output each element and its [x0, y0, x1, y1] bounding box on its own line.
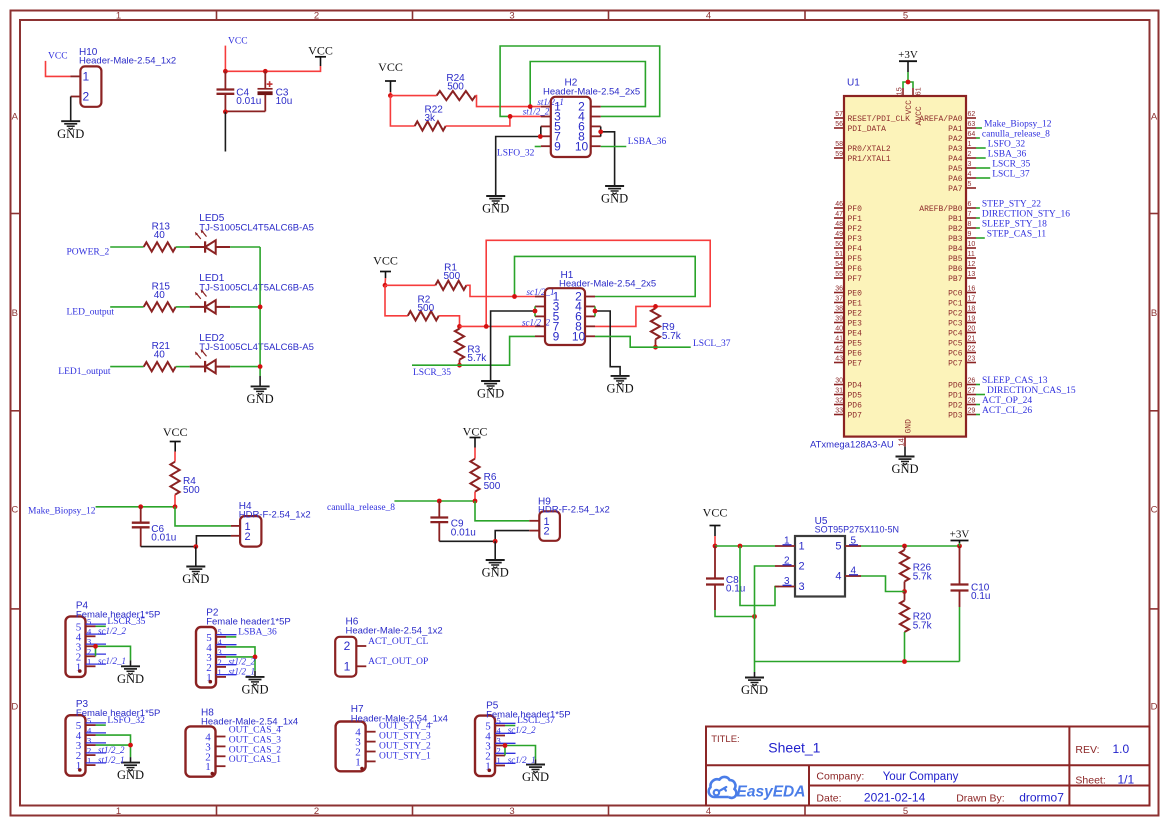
svg-text:1: 1	[116, 10, 121, 21]
pin1 marker	[488, 769, 492, 773]
svg-text:PD2: PD2	[948, 401, 963, 410]
svg-text:Company:: Company:	[816, 771, 864, 783]
svg-text:OUT_STY_1: OUT_STY_1	[379, 751, 431, 761]
wire LED gnd rail	[259, 247, 261, 376]
svg-text:43: 43	[835, 356, 843, 363]
wire net STEP_STY_22	[976, 207, 980, 209]
svg-text:OUT_STY_4: OUT_STY_4	[379, 722, 431, 732]
wire net DIRECTION_STY_16	[976, 217, 980, 219]
power flag VCC (R6)	[463, 425, 488, 448]
pin 56 PDI_DATA	[834, 127, 844, 129]
svg-text:41: 41	[835, 336, 843, 343]
svg-text:PD3: PD3	[948, 411, 963, 420]
ground (P5)	[522, 765, 549, 785]
svg-text:Your Company: Your Company	[883, 771, 959, 783]
svg-text:Sheet_1: Sheet_1	[768, 740, 820, 756]
wire R21 to LED2	[176, 366, 190, 368]
regulator U5	[775, 516, 899, 597]
resistor R6	[470, 459, 500, 492]
svg-text:10: 10	[968, 241, 976, 248]
svg-text:40: 40	[154, 350, 166, 361]
ground (P4)	[117, 666, 144, 686]
svg-text:Header-Male-2.54_2x5: Header-Male-2.54_2x5	[543, 87, 640, 98]
svg-text:GND: GND	[182, 572, 209, 586]
svg-text:st1/2_2: st1/2_2	[229, 657, 256, 667]
wire R9 bottom lead	[655, 339, 657, 347]
svg-text:PE7: PE7	[848, 359, 863, 368]
pin 15 VCC (top)	[902, 88, 904, 96]
junction	[457, 363, 462, 368]
junction	[598, 129, 603, 134]
svg-text:st1/2_2: st1/2_2	[523, 107, 550, 117]
svg-text:13: 13	[968, 271, 976, 278]
wire net DIRECTION_CAS_15	[976, 394, 985, 396]
svg-text:2: 2	[968, 151, 972, 158]
junction	[258, 305, 263, 310]
svg-text:40: 40	[154, 230, 166, 241]
pin 3	[366, 741, 376, 743]
svg-text:PC7: PC7	[948, 359, 963, 368]
pin 9 PB3	[966, 237, 976, 239]
wire gnd node down	[494, 541, 496, 560]
wire U5 pin2 to gnd net	[755, 566, 776, 617]
svg-text:ACT_OP_24: ACT_OP_24	[982, 396, 1032, 406]
svg-text:TJ-S1005CL4T5ALC6B-A5: TJ-S1005CL4T5ALC6B-A5	[199, 342, 314, 353]
svg-text:3: 3	[968, 161, 972, 168]
wire LED1_output to R21	[110, 366, 144, 368]
pin 3 PA5	[966, 167, 976, 169]
svg-text:EasyEDA: EasyEDA	[737, 784, 806, 801]
ground (H1 right)	[607, 376, 634, 396]
column labels 1-5 bottom	[116, 806, 908, 817]
svg-text:5.7k: 5.7k	[467, 353, 487, 364]
pin 42 PE6	[834, 352, 844, 354]
svg-text:Header-Male-2.54_1x2: Header-Male-2.54_1x2	[79, 56, 176, 67]
svg-text:3: 3	[509, 10, 514, 21]
wire net LSBA_36 (H2 pin10)	[601, 146, 627, 148]
connector P3	[66, 699, 161, 776]
svg-text:3: 3	[784, 576, 790, 587]
junction	[473, 499, 478, 504]
pin 1	[495, 765, 505, 767]
svg-text:4: 4	[706, 806, 711, 817]
wire +3V to U1 VCC/AVCC pins	[907, 72, 909, 82]
junction	[512, 294, 517, 299]
pin 23 PC7	[966, 362, 976, 364]
pin 59 PR1/XTAL1	[834, 157, 844, 159]
resistor R1	[435, 263, 466, 290]
svg-text:SLEEP_CAS_13: SLEEP_CAS_13	[982, 376, 1048, 386]
wire VCC to R6	[474, 448, 476, 459]
svg-text:14: 14	[897, 438, 906, 446]
svg-text:42: 42	[835, 346, 843, 353]
EasyEDA logo	[709, 777, 806, 801]
wire rail to ground	[259, 376, 261, 386]
pin1 marker	[211, 772, 215, 776]
svg-text:ATxmega128A3-AU: ATxmega128A3-AU	[810, 440, 894, 451]
svg-text:59: 59	[835, 151, 843, 158]
svg-text:PC6: PC6	[948, 349, 963, 358]
svg-text:39: 39	[835, 316, 843, 323]
ground (H10)	[57, 121, 84, 141]
svg-text:PR0/XTAL2: PR0/XTAL2	[848, 145, 891, 154]
wire C6 to gnd node	[141, 546, 196, 548]
wire net Make_Biopsy_12	[976, 127, 982, 129]
svg-text:GND: GND	[607, 382, 634, 396]
svg-text:40: 40	[154, 290, 166, 301]
wire net sc1/2_1 loop (H1 pin2 to pin1)	[515, 256, 696, 296]
wire U5 pin5 to +3V rail	[861, 545, 960, 547]
svg-text:OUT_STY_3: OUT_STY_3	[379, 732, 431, 742]
svg-text:OUT_STY_2: OUT_STY_2	[379, 742, 431, 752]
svg-text:10: 10	[575, 139, 589, 153]
svg-text:GND: GND	[601, 192, 628, 206]
svg-text:D: D	[1151, 702, 1158, 713]
junction	[223, 109, 228, 114]
power flag +3V (U5 out)	[950, 529, 970, 544]
svg-text:5: 5	[87, 715, 91, 725]
svg-text:+3V: +3V	[950, 529, 970, 541]
wire R24 to H2 pin1	[476, 96, 541, 107]
pin 2	[495, 755, 505, 757]
svg-text:2021-02-14: 2021-02-14	[864, 791, 926, 805]
row labels A-D right	[1151, 112, 1158, 713]
svg-text:20: 20	[968, 326, 976, 333]
svg-text:11: 11	[968, 251, 975, 258]
svg-text:1: 1	[218, 667, 222, 677]
svg-text:GND: GND	[741, 683, 768, 697]
wire node to H9 pin1	[475, 501, 529, 521]
wire U5 pin3 to VCC net	[740, 546, 779, 606]
wire R4 to node	[174, 495, 176, 507]
svg-text:5.7k: 5.7k	[662, 331, 682, 342]
junction	[173, 504, 178, 509]
pin 32 PD6	[834, 404, 844, 406]
svg-text:3k: 3k	[425, 113, 437, 124]
svg-text:AREFA/PA0: AREFA/PA0	[919, 115, 962, 124]
junction	[593, 309, 598, 314]
svg-text:PB5: PB5	[948, 255, 963, 264]
svg-text:VCC: VCC	[378, 60, 403, 74]
svg-text:5: 5	[903, 806, 908, 817]
wire node to H4 pin1	[175, 507, 231, 526]
svg-text:4: 4	[851, 565, 857, 576]
svg-text:21: 21	[968, 336, 976, 343]
pin 20 PC4	[966, 332, 976, 334]
svg-text:5: 5	[497, 716, 501, 726]
wire C9 to gnd node	[439, 540, 495, 542]
svg-text:2: 2	[784, 555, 790, 566]
svg-text:PB6: PB6	[948, 265, 963, 274]
wire VCC to R4	[174, 452, 176, 462]
pin 5	[86, 625, 96, 627]
svg-text:HDR-F-2.54_1x2: HDR-F-2.54_1x2	[239, 509, 311, 520]
svg-text:2: 2	[497, 746, 501, 756]
capacitor C3 (polarized)	[228, 71, 293, 111]
svg-text:3: 3	[509, 806, 514, 817]
resistor R9	[651, 308, 682, 342]
svg-text:PF0: PF0	[848, 205, 863, 214]
wire P3 pin3 joins	[96, 744, 131, 746]
wire net LSCR_35 (P4 pin5)	[96, 625, 106, 627]
svg-text:OUT_CAS_1: OUT_CAS_1	[229, 755, 282, 765]
svg-text:29: 29	[968, 408, 976, 415]
pin 1	[216, 676, 226, 678]
svg-text:PF2: PF2	[848, 225, 863, 234]
wire net LSFO_32 (P3 pin5)	[96, 724, 106, 726]
wire sc1/2_2 to H1 pin7	[460, 325, 536, 327]
junction	[388, 93, 393, 98]
power flag VCC (H1)	[373, 254, 398, 279]
pin 2	[366, 751, 376, 753]
svg-text:GND: GND	[241, 683, 268, 697]
column labels 1-5 top	[116, 10, 908, 21]
svg-text:5: 5	[218, 627, 222, 637]
junction	[738, 544, 743, 549]
svg-text:PD0: PD0	[948, 381, 963, 390]
svg-text:16: 16	[968, 286, 976, 293]
svg-text:GND: GND	[117, 768, 144, 782]
wire VCC to R1	[385, 284, 435, 286]
connector P2	[196, 608, 291, 688]
svg-text:STEP_CAS_11: STEP_CAS_11	[987, 229, 1047, 239]
svg-text:50: 50	[835, 241, 843, 248]
wire net LSCL_37 (H1 pin10)	[595, 336, 691, 347]
svg-text:B: B	[12, 308, 18, 319]
mcu U1	[810, 78, 1076, 451]
wire net canulla_release_8	[394, 500, 475, 502]
ground (U1)	[891, 457, 918, 477]
capacitor C8	[706, 546, 745, 610]
svg-text:RESET/PDI_CLK: RESET/PDI_CLK	[848, 115, 911, 124]
svg-text:3: 3	[87, 637, 91, 647]
svg-text:sc1/2_1: sc1/2_1	[508, 755, 536, 765]
svg-text:3: 3	[799, 581, 805, 593]
pin 28 PD2	[966, 404, 976, 406]
svg-text:LSCR_35: LSCR_35	[992, 159, 1030, 169]
power flag +3V (U1)	[898, 49, 918, 72]
svg-text:31: 31	[835, 388, 843, 395]
wire VCC to H10 pin1	[46, 61, 71, 77]
junction	[258, 364, 263, 369]
svg-text:18: 18	[968, 306, 976, 313]
pin 7 PB1	[966, 217, 976, 219]
svg-text:49: 49	[835, 231, 843, 238]
svg-text:LSBA_36: LSBA_36	[988, 149, 1027, 159]
wire R6 to node	[474, 492, 476, 501]
svg-text:LSBA_36: LSBA_36	[628, 137, 667, 147]
svg-text:PE3: PE3	[848, 319, 863, 328]
pin 2	[775, 565, 795, 567]
wire R13 to LED5	[176, 246, 190, 248]
resistor R13	[144, 222, 176, 252]
svg-text:56: 56	[835, 121, 843, 128]
svg-text:canulla_release_8: canulla_release_8	[982, 129, 1050, 139]
svg-text:LED1_output: LED1_output	[58, 367, 111, 377]
wire P5 pin3 to ground	[505, 746, 536, 760]
wire VCC down to R2	[385, 285, 408, 316]
wire P4 pins2/3 join	[95, 646, 97, 656]
svg-text:57: 57	[835, 111, 843, 118]
header H8	[186, 708, 299, 777]
svg-text:PC0: PC0	[948, 289, 963, 298]
svg-text:58: 58	[835, 141, 843, 148]
wire R20 to rail	[904, 632, 906, 662]
svg-text:PA3: PA3	[948, 145, 963, 154]
svg-text:500: 500	[183, 485, 200, 496]
pin 64 PA2	[966, 137, 976, 139]
wire VCC node to U5 pin1	[715, 545, 775, 547]
svg-text:1: 1	[968, 141, 972, 148]
svg-text:st1/2_1: st1/2_1	[229, 667, 256, 677]
svg-text:D: D	[11, 702, 18, 713]
wire POWER_2 to R13	[110, 246, 144, 248]
svg-text:6: 6	[968, 201, 972, 208]
row labels A-D left	[11, 112, 18, 713]
svg-text:2: 2	[87, 745, 91, 755]
svg-text:22: 22	[968, 346, 976, 353]
junction	[533, 309, 538, 314]
resistor R4	[170, 462, 200, 496]
svg-text:PC4: PC4	[948, 329, 963, 338]
wire to left ground (H1)	[491, 311, 535, 381]
svg-text:3: 3	[87, 735, 91, 745]
wire H2 pins5/7 join	[540, 127, 542, 137]
svg-text:PC3: PC3	[948, 319, 963, 328]
wire to right ground (H1)	[595, 311, 620, 376]
wire H9 pin2 to gnd node	[495, 531, 529, 542]
pin 5	[495, 725, 505, 727]
svg-text:23: 23	[968, 356, 976, 363]
svg-text:55: 55	[835, 271, 843, 278]
svg-text:ACT_OUT_OP: ACT_OUT_OP	[368, 657, 428, 667]
pin 11 PB5	[966, 257, 976, 259]
capacitor C9	[430, 501, 475, 541]
svg-text:GND: GND	[57, 127, 84, 141]
pin 33 PD7	[834, 414, 844, 416]
svg-text:STEP_STY_22: STEP_STY_22	[982, 199, 1041, 209]
svg-text:1: 1	[87, 755, 91, 765]
wire to left ground	[496, 137, 541, 197]
svg-text:5.7k: 5.7k	[913, 572, 933, 583]
svg-text:4: 4	[835, 571, 841, 583]
junction	[528, 104, 533, 109]
pin 58 PR0/XTAL2	[834, 147, 844, 149]
svg-text:PR1/XTAL1: PR1/XTAL1	[848, 155, 891, 164]
pin1 marker	[360, 767, 364, 771]
svg-text:1: 1	[205, 761, 211, 773]
pin1 marker	[209, 680, 213, 684]
wire net LSFO_32	[976, 147, 986, 149]
svg-text:0.1u: 0.1u	[726, 584, 745, 595]
ground (H4)	[182, 567, 209, 587]
pin 31 PD5	[834, 394, 844, 396]
pin 57 RESET/PDI_CLK	[834, 117, 844, 119]
svg-text:sc1/2_1: sc1/2_1	[98, 656, 126, 666]
svg-text:AREFB/PB0: AREFB/PB0	[919, 205, 962, 214]
ground (LED rail)	[247, 386, 274, 406]
wire rail to ground	[754, 672, 756, 678]
LED LED2	[190, 333, 314, 374]
svg-text:VCC: VCC	[228, 36, 248, 46]
svg-text:64: 64	[968, 131, 976, 138]
junction	[383, 283, 388, 288]
pin 50 PF4	[834, 247, 844, 249]
wire net SLEEP_CAS_13	[976, 384, 980, 386]
pin 4	[495, 735, 505, 737]
svg-text:C: C	[11, 505, 18, 516]
pin 4	[366, 731, 376, 733]
svg-text:PE6: PE6	[848, 349, 863, 358]
pin 4	[845, 575, 861, 577]
pin 38 PE2	[834, 312, 844, 314]
pin 39 PE3	[834, 322, 844, 324]
pin 21 PC5	[966, 342, 976, 344]
pin 2	[86, 754, 96, 756]
junction	[138, 504, 143, 509]
wire P3 pin4 to ground	[96, 735, 131, 757]
svg-text:PF6: PF6	[848, 265, 863, 274]
svg-text:PA5: PA5	[948, 165, 963, 174]
svg-text:TJ-S1005CL4T5ALC6B-A5: TJ-S1005CL4T5ALC6B-A5	[199, 283, 314, 294]
ground (H9)	[482, 560, 509, 580]
svg-text:PF1: PF1	[848, 215, 863, 224]
svg-text:VCC: VCC	[373, 254, 398, 268]
svg-text:500: 500	[447, 82, 464, 93]
svg-text:2: 2	[82, 90, 89, 104]
svg-text:LSFO_32: LSFO_32	[497, 149, 535, 159]
svg-text:9: 9	[553, 329, 560, 343]
svg-text:PB3: PB3	[948, 235, 963, 244]
pin 4	[86, 635, 96, 637]
svg-text:VCC: VCC	[703, 505, 728, 519]
pin 40 PE4	[834, 332, 844, 334]
svg-text:GND: GND	[522, 770, 549, 784]
svg-text:1: 1	[355, 756, 361, 768]
junction	[902, 544, 907, 549]
pin 3	[775, 586, 795, 588]
wire gnd rail	[755, 661, 960, 663]
svg-text:0.01u: 0.01u	[451, 527, 476, 538]
svg-text:ACT_CL_26: ACT_CL_26	[982, 406, 1032, 416]
wire P2 pin3 joins	[226, 656, 255, 658]
svg-text:Drawn By:: Drawn By:	[956, 793, 1004, 805]
pin 5 PA7	[966, 187, 976, 189]
svg-text:sc1/2_2: sc1/2_2	[98, 626, 126, 636]
svg-text:PE4: PE4	[848, 329, 863, 338]
wire H1 pins3/5 join	[534, 306, 536, 316]
svg-text:PD4: PD4	[848, 381, 863, 390]
svg-text:37: 37	[835, 296, 843, 303]
ground (P3)	[117, 763, 144, 783]
pin 14 GND (bottom)	[904, 437, 906, 447]
svg-text:PB4: PB4	[948, 245, 963, 254]
wire R1 to H1 pin1	[466, 285, 535, 296]
svg-text:Make_Biopsy_12: Make_Biopsy_12	[28, 507, 96, 517]
wire R22 to H2 pin3	[446, 116, 541, 126]
resistor R21	[144, 341, 176, 371]
wire LED2 to gnd rail	[230, 366, 260, 368]
svg-text:1: 1	[799, 541, 805, 553]
wire VCC flag down	[384, 278, 387, 285]
wire net LSFO_32 (H2 pin9)	[535, 146, 541, 148]
header H4	[231, 501, 311, 547]
svg-text:0.01u: 0.01u	[151, 533, 176, 544]
pin 1	[216, 765, 226, 767]
junction	[957, 544, 962, 549]
pin 61 AVCC (top)	[912, 88, 914, 96]
svg-text:LSCR_35: LSCR_35	[413, 368, 451, 378]
